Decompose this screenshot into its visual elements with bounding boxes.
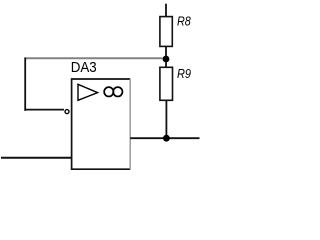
wire feedback to inverting input bbox=[24, 109, 64, 111]
svg-text:DA3: DA3 bbox=[71, 60, 97, 76]
wire junction to R9 bbox=[165, 62, 167, 67]
node junction dot (R8/R9/feedback) bbox=[163, 56, 170, 63]
amplifier triangle bbox=[78, 84, 98, 100]
wire feedback horizontal gray bbox=[24, 57, 162, 59]
node output junction dot bbox=[163, 135, 170, 142]
resistor R9 bbox=[160, 67, 173, 100]
wire input bottom left bbox=[1, 157, 72, 159]
inverting input bubble bbox=[65, 110, 69, 114]
wire feedback vertical bbox=[24, 58, 26, 111]
infinity symbol left circle bbox=[104, 87, 113, 96]
svg-text:R8: R8 bbox=[177, 14, 191, 29]
infinity symbol right circle bbox=[113, 87, 122, 96]
resistor R8 bbox=[160, 17, 172, 47]
wire output bbox=[130, 137, 199, 139]
svg-text:R9: R9 bbox=[177, 66, 191, 81]
wire top lead into R8 bbox=[165, 4, 167, 17]
op-amp right edge (light) bbox=[129, 79, 131, 169]
wire R9 to output junction bbox=[165, 100, 167, 136]
op-amp DA3 body bbox=[72, 79, 131, 169]
wire R8 to junction bbox=[165, 46, 167, 56]
